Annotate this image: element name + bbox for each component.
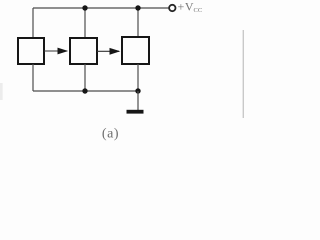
scan artifact: faint smudge left edge — [0, 83, 3, 100]
block stage 3 — [122, 37, 149, 64]
ground symbol — [127, 110, 144, 114]
node junction on top rail above box3 — [135, 5, 140, 10]
wire: box1 top drop — [32, 8, 34, 38]
block stage 2 — [70, 38, 97, 64]
arrowhead into stage 3 — [110, 48, 121, 55]
wire: arrow stage2 to stage3 — [97, 50, 119, 52]
wire: +Vcc top rail — [33, 7, 169, 9]
wire: ground bottom rail — [33, 90, 138, 92]
node junction on bottom rail below box2 — [82, 88, 87, 93]
scan artifact: faint page-edge line right side — [243, 30, 244, 118]
svg-text:(a): (a) — [102, 127, 119, 142]
wire: box3 top drop — [137, 8, 139, 37]
node junction on top rail above box2 — [82, 5, 87, 10]
node junction on bottom rail below box3 — [135, 88, 140, 93]
wire: box2 bottom drop — [84, 64, 86, 91]
wire: arrow stage1 to stage2 — [44, 50, 67, 52]
wire: box2 top drop — [84, 8, 86, 38]
wire: ground stub — [137, 91, 139, 110]
wire: box1 bottom drop — [32, 64, 34, 91]
terminal +Vcc (open circle) — [169, 5, 175, 11]
wire: box3 bottom drop — [137, 64, 139, 91]
arrowhead into stage 2 — [58, 48, 69, 55]
block stage 1 — [18, 38, 44, 64]
